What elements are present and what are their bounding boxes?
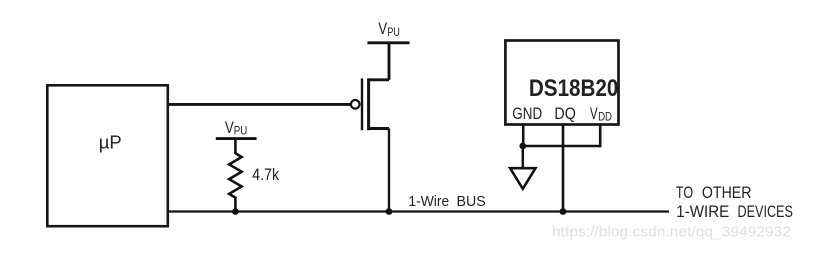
label 1-Wire BUS net [408, 194, 485, 210]
svg-text:V: V [225, 119, 234, 137]
label 4.7k [252, 165, 280, 184]
wire: VPU bar to resistor top [234, 139, 237, 154]
junction: drain/bus node [386, 208, 393, 215]
ground [510, 168, 535, 189]
wire: resistor bottom to bus [234, 197, 237, 212]
svg-text:1-WIRE: 1-WIRE [676, 203, 729, 221]
watermark [552, 225, 791, 241]
svg-text:DQ: DQ [554, 105, 576, 123]
svg-text:PU: PU [387, 25, 400, 39]
wire: DQ pin down to bus [562, 124, 565, 212]
svg-text:V: V [590, 105, 598, 123]
wire: VDD to GND jumper [522, 145, 602, 148]
svg-text:BUS: BUS [457, 194, 486, 210]
svg-text:V: V [378, 20, 387, 38]
wire: 1-Wire BUS horizontal [168, 210, 669, 212]
label 1-WIRE DEVICES [676, 203, 793, 221]
transistor Q1 P-channel MOSFET [351, 78, 389, 130]
microprocessor box uP [47, 85, 168, 226]
wire: VDD pin down [599, 124, 602, 147]
wire: node to ground symbol [522, 146, 525, 169]
svg-text:DS18B20: DS18B20 [529, 75, 619, 102]
wire: GND pin down [522, 124, 525, 147]
label VPU (MOSFET) [378, 20, 400, 39]
svg-text:DEVICES: DEVICES [738, 203, 794, 221]
wire: VPU bar to MOSFET source [388, 43, 391, 80]
svg-text:OTHER: OTHER [702, 184, 752, 202]
junction: resistor/bus node [232, 208, 239, 215]
junction: DQ/bus node [560, 208, 567, 215]
resistor 4.7k [229, 153, 242, 197]
label TO OTHER [676, 184, 752, 202]
svg-text:https://blog.csdn.net/qq_39492: https://blog.csdn.net/qq_39492932 [552, 225, 791, 241]
wire: MOSFET drain to bus [388, 129, 390, 212]
pin label GND [512, 105, 542, 123]
svg-text:DD: DD [598, 110, 612, 124]
svg-text:GND: GND [512, 105, 542, 123]
wire: uP to MOSFET gate [168, 103, 351, 106]
svg-text:4.7k: 4.7k [252, 165, 280, 184]
pin label VDD [590, 105, 612, 124]
svg-text:µP: µP [99, 132, 122, 153]
label VPU (resistor) [225, 119, 247, 138]
pin label DQ [554, 105, 576, 123]
power rail VPU (MOSFET) [367, 41, 409, 44]
IC U1 DS18B20 box [505, 41, 618, 125]
svg-text:PU: PU [234, 124, 248, 138]
svg-text:1-Wire: 1-Wire [408, 194, 449, 210]
svg-text:TO: TO [676, 184, 693, 202]
junction: GND/VDD node [519, 143, 526, 150]
power rail VPU (resistor) [216, 137, 257, 140]
